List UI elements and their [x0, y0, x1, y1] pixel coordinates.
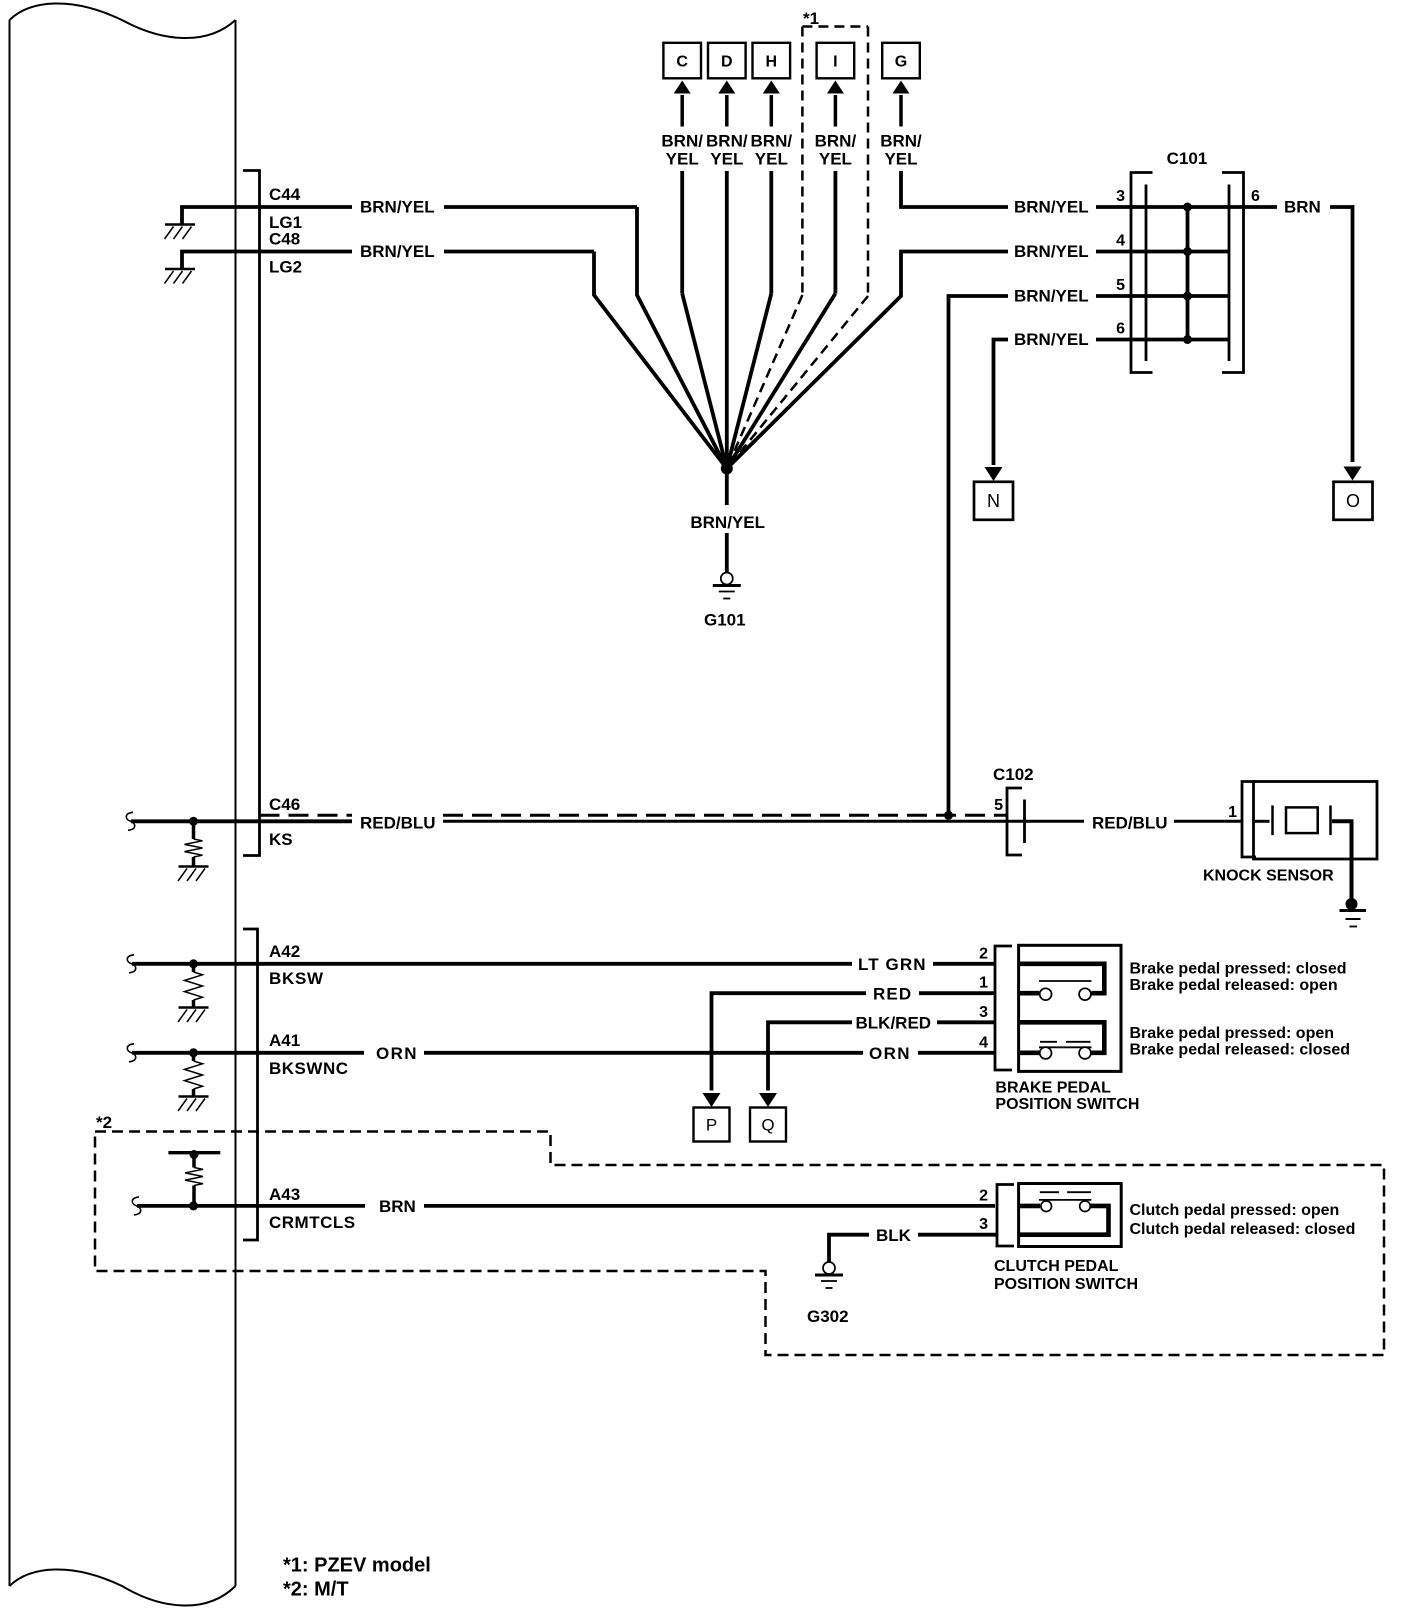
wire break (A43) — [132, 1197, 140, 1215]
ECM/PCM block left edge — [9, 20, 11, 1586]
wire BRN from C101 — [1229, 205, 1277, 209]
arrow into Q — [759, 1093, 777, 1107]
svg-text:BLK/RED: BLK/RED — [856, 1014, 932, 1033]
wire BLK/RED to switch pin 3 — [937, 1020, 995, 1024]
terminal box O — [1334, 482, 1373, 520]
resistor (ECM internal, KS) — [185, 839, 203, 857]
wire break (C46) — [126, 812, 134, 830]
wire A42 LT GRN — [132, 962, 852, 966]
svg-text:G302: G302 — [807, 1307, 849, 1326]
terminal box P — [694, 1108, 730, 1142]
dashed box *1 right diagonal — [727, 296, 868, 469]
wire BRN to clutch switch pin 2 — [424, 1204, 995, 1208]
ground (ECM internal, LG1) — [165, 225, 196, 240]
wire C column down — [680, 171, 684, 294]
wire C101 pin 4 from splice — [727, 252, 1008, 469]
svg-text:4: 4 — [1116, 233, 1125, 250]
svg-text:BRN: BRN — [379, 1197, 416, 1216]
svg-text:CRMTCLS: CRMTCLS — [269, 1213, 356, 1232]
C101 left inner half — [1145, 185, 1148, 362]
switch contacts (CRMTCLS, normally closed) — [1019, 1192, 1109, 1235]
wire C44 down to splice — [637, 207, 727, 469]
svg-text:BRN/: BRN/ — [815, 132, 857, 151]
svg-text:BKSW: BKSW — [269, 969, 324, 988]
arrow up into G — [893, 81, 910, 94]
svg-text:POSITION SWITCH: POSITION SWITCH — [995, 1096, 1139, 1113]
wire D column down to splice — [725, 171, 729, 469]
svg-text:BRN/YEL: BRN/YEL — [1014, 330, 1089, 349]
svg-text:BRN/YEL: BRN/YEL — [360, 242, 435, 261]
wire KS solid left — [131, 819, 352, 823]
wire splice to G101 lower — [725, 533, 729, 573]
ground (ECM internal, LG2) — [165, 269, 196, 284]
wire BLK/RED from switch pin 3 to Q — [768, 1022, 852, 1090]
wire BLK to clutch switch pin 3 — [918, 1233, 997, 1237]
ground (ECM internal, BKSW) — [178, 1008, 209, 1023]
ECM upper pin bracket — [243, 171, 260, 856]
C102 inner half — [1023, 800, 1026, 844]
arrow into N — [985, 467, 1003, 481]
terminal box C — [663, 43, 701, 79]
wire C44 to ground — [182, 207, 352, 225]
svg-text:Brake pedal pressed: closed: Brake pedal pressed: closed — [1130, 961, 1347, 978]
ECM/PCM block torn bottom edge — [10, 1569, 236, 1605]
wire RED to switch pin 1 — [919, 991, 995, 995]
wire break (A41) — [127, 1044, 135, 1062]
svg-text:KNOCK SENSOR: KNOCK SENSOR — [1203, 868, 1334, 885]
svg-text:6: 6 — [1251, 188, 1260, 205]
svg-text:Brake pedal pressed: open: Brake pedal pressed: open — [1130, 1025, 1335, 1042]
svg-text:6: 6 — [1116, 321, 1125, 338]
svg-text:2: 2 — [979, 945, 988, 962]
svg-text:H: H — [766, 54, 778, 71]
wire pin 4 to C101 — [1096, 250, 1229, 254]
brake switch connector bracket — [995, 946, 1012, 1070]
svg-text:BRN/: BRN/ — [751, 132, 793, 151]
wire A43 left — [137, 1204, 365, 1208]
svg-text:3: 3 — [979, 1004, 988, 1021]
svg-text:4: 4 — [979, 1034, 988, 1051]
arrow into O — [1344, 467, 1362, 481]
dashed box *2 (M/T) — [95, 1132, 1384, 1356]
resistor (ECM internal, CRMTCLS) — [185, 1168, 203, 1186]
wire break (A42) — [127, 955, 135, 973]
ground (ECM internal, BKSWNC) — [178, 1097, 209, 1112]
terminal box Q — [750, 1108, 786, 1142]
wire ORN to switch pin 4 — [918, 1051, 995, 1055]
wire C48 to ground — [182, 252, 352, 270]
arrow into P — [703, 1093, 721, 1107]
junction shield to C101 pin 5 — [944, 811, 953, 820]
brake pedal position switch SW1 — [1019, 945, 1121, 1071]
svg-text:RED/BLU: RED/BLU — [360, 813, 436, 832]
svg-text:G: G — [895, 54, 907, 71]
knock sensor KS1 — [1254, 782, 1378, 901]
terminal box I — [817, 43, 855, 79]
ground G101 — [713, 573, 741, 599]
wire C48 down to splice — [594, 252, 727, 469]
arrow up into I — [827, 81, 844, 94]
svg-text:N: N — [987, 491, 1000, 511]
wire pin 6 to C101 — [1096, 338, 1229, 342]
svg-text:Brake pedal released: closed: Brake pedal released: closed — [1130, 1042, 1351, 1059]
svg-text:BRN/YEL: BRN/YEL — [1014, 242, 1089, 261]
terminal box N — [974, 482, 1013, 520]
wire resistor to ground — [192, 1000, 196, 1007]
svg-text:POSITION SWITCH: POSITION SWITCH — [994, 1276, 1138, 1293]
svg-text:RED: RED — [873, 985, 912, 1004]
ECM/PCM block torn top edge — [10, 3, 236, 38]
svg-text:C: C — [676, 54, 688, 71]
svg-text:A43: A43 — [269, 1185, 300, 1204]
wire pin 5 to C101 — [1096, 294, 1229, 298]
svg-text:1: 1 — [979, 975, 988, 992]
wire LT GRN to switch pin 2 — [933, 962, 995, 966]
svg-text:3: 3 — [979, 1216, 988, 1233]
ground G302 — [815, 1262, 843, 1288]
wire pin 3 to C101 — [1096, 205, 1229, 209]
svg-text:ORN: ORN — [869, 1044, 911, 1063]
arrow shaft D — [725, 95, 729, 127]
svg-text:BRN/YEL: BRN/YEL — [1014, 287, 1089, 306]
svg-text:Clutch pedal released: closed: Clutch pedal released: closed — [1130, 1221, 1356, 1238]
terminal box G — [882, 43, 920, 79]
wire resistor to ground — [192, 1089, 196, 1096]
wire H column diagonal to splice — [727, 294, 772, 469]
wire to resistor — [192, 1053, 196, 1061]
wire A41 left — [132, 1051, 364, 1055]
svg-text:A42: A42 — [269, 942, 300, 961]
svg-text:P: P — [706, 1116, 717, 1135]
C101 internal bus — [1186, 207, 1190, 340]
arrow shaft C — [680, 95, 684, 127]
shield dashed left — [260, 814, 353, 817]
terminal box H — [753, 43, 791, 79]
dashed box *1 top — [802, 25, 868, 28]
wire to resistor — [192, 821, 196, 839]
junction — [1183, 292, 1192, 301]
svg-text:CLUTCH PEDAL: CLUTCH PEDAL — [994, 1258, 1119, 1275]
svg-text:5: 5 — [994, 797, 1003, 814]
arrow up into D — [718, 81, 735, 94]
svg-text:O: O — [1346, 491, 1360, 511]
wire I column down — [834, 171, 838, 294]
wire splice to G101 upper — [725, 469, 729, 506]
wire KS solid right — [443, 820, 1084, 823]
wire C101 pin 5 down to shield — [949, 296, 1009, 815]
svg-text:1: 1 — [1228, 804, 1237, 821]
svg-text:2: 2 — [979, 1187, 988, 1204]
svg-text:YEL: YEL — [884, 150, 917, 169]
svg-text:G101: G101 — [704, 611, 746, 630]
svg-text:C102: C102 — [993, 765, 1034, 784]
switch contacts (BKSW, normally open) — [1019, 964, 1105, 1000]
dashed box *1 right — [867, 27, 870, 297]
ground (ECM internal, KS) — [178, 867, 209, 882]
junction — [1183, 335, 1192, 344]
svg-text:C48: C48 — [269, 230, 300, 249]
wire RED/BLU to knock sensor — [1174, 820, 1242, 823]
wire C44 BRN/YEL right segment — [444, 205, 637, 209]
svg-text:BRN: BRN — [1284, 198, 1321, 217]
pull-up (ECM internal, CRMTCLS) — [168, 1150, 220, 1168]
junction — [1183, 203, 1192, 212]
ECM/PCM block right edge — [235, 20, 237, 1586]
svg-text:BRN/YEL: BRN/YEL — [360, 198, 435, 217]
junction (A43 pullup) — [189, 1201, 198, 1210]
wire ORN middle — [424, 1051, 863, 1055]
svg-text:3: 3 — [1116, 188, 1125, 205]
arrow shaft G — [899, 95, 903, 127]
wire BRN down to O — [1330, 207, 1353, 462]
wire RED from switch pin 1 to P — [712, 993, 867, 1090]
svg-text:YEL: YEL — [819, 150, 852, 169]
C101 right inner half — [1228, 185, 1231, 362]
splice junction (BRN/YEL) — [721, 463, 733, 475]
svg-text:D: D — [721, 54, 733, 71]
ECM lower pin bracket — [243, 929, 258, 1240]
wire C column diagonal to splice — [682, 294, 727, 469]
svg-text:*2: *2 — [96, 1113, 112, 1132]
svg-text:BRAKE PEDAL: BRAKE PEDAL — [995, 1080, 1111, 1097]
dashed box *1 left — [801, 27, 804, 296]
resistor (ECM internal, BKSWNC) — [185, 1061, 203, 1089]
wire resistor to ground — [192, 857, 196, 866]
svg-text:BLK: BLK — [876, 1226, 912, 1245]
svg-text:A41: A41 — [269, 1031, 300, 1050]
svg-text:BRN/: BRN/ — [880, 132, 922, 151]
wire C48 BRN/YEL right segment — [444, 250, 594, 254]
knock sensor connector bracket — [1242, 782, 1256, 858]
wire to resistor — [192, 964, 196, 972]
svg-text:C101: C101 — [1167, 149, 1208, 168]
wire BLK to ground — [829, 1235, 869, 1262]
resistor (ECM internal, BKSW) — [185, 972, 203, 1000]
junction (A42 pulldown) — [189, 959, 198, 968]
svg-text:*1: PZEV model: *1: PZEV model — [283, 1555, 431, 1577]
C101 left outer bracket — [1131, 173, 1153, 373]
svg-text:YEL: YEL — [666, 150, 699, 169]
wire C101 pin 6 down to N — [994, 340, 1009, 466]
svg-text:*1: *1 — [803, 9, 819, 28]
arrow up into C — [674, 81, 691, 94]
svg-text:ORN: ORN — [376, 1044, 418, 1063]
svg-text:*2: M/T: *2: M/T — [283, 1579, 349, 1601]
svg-text:Q: Q — [761, 1116, 774, 1135]
svg-text:5: 5 — [1116, 277, 1125, 294]
wire G column down then right (C101 pin 3) — [901, 171, 1008, 207]
svg-text:YEL: YEL — [710, 150, 743, 169]
svg-text:C44: C44 — [269, 185, 301, 204]
svg-text:BKSWNC: BKSWNC — [269, 1059, 349, 1078]
svg-text:KS: KS — [269, 830, 293, 849]
svg-text:BRN/YEL: BRN/YEL — [690, 513, 765, 532]
shield dashed right — [443, 814, 1007, 817]
dashed box *1 left diagonal — [727, 295, 803, 469]
C102 bracket — [1007, 788, 1022, 855]
ground (knock sensor) — [1340, 898, 1367, 927]
junction (KS pulldown) — [189, 817, 198, 826]
svg-text:LT GRN: LT GRN — [858, 955, 927, 974]
arrow up into H — [763, 81, 780, 94]
svg-text:RED/BLU: RED/BLU — [1092, 813, 1168, 832]
clutch pedal position switch SW2 — [1019, 1184, 1122, 1247]
svg-text:Clutch pedal pressed: open: Clutch pedal pressed: open — [1130, 1202, 1340, 1219]
wire I column diagonal to splice — [727, 294, 836, 469]
C101 right outer bracket — [1222, 173, 1244, 373]
svg-text:LG2: LG2 — [269, 258, 302, 277]
junction — [1183, 247, 1192, 256]
arrow shaft H — [770, 95, 774, 127]
wire H column down — [769, 171, 773, 294]
wire resistor to A43 — [192, 1186, 196, 1206]
svg-text:I: I — [833, 54, 837, 71]
terminal box D — [708, 43, 746, 79]
clutch switch connector bracket — [997, 1185, 1014, 1247]
svg-text:BRN/: BRN/ — [661, 132, 703, 151]
svg-text:YEL: YEL — [755, 150, 788, 169]
junction (A41 pulldown) — [189, 1048, 198, 1057]
svg-text:BRN/YEL: BRN/YEL — [1014, 198, 1089, 217]
switch contacts (BKSWNC, normally closed) — [1019, 1022, 1105, 1059]
svg-text:C46: C46 — [269, 795, 300, 814]
svg-text:BRN/: BRN/ — [706, 132, 748, 151]
arrow shaft I — [834, 95, 838, 127]
svg-text:Brake pedal released: open: Brake pedal released: open — [1130, 977, 1338, 994]
